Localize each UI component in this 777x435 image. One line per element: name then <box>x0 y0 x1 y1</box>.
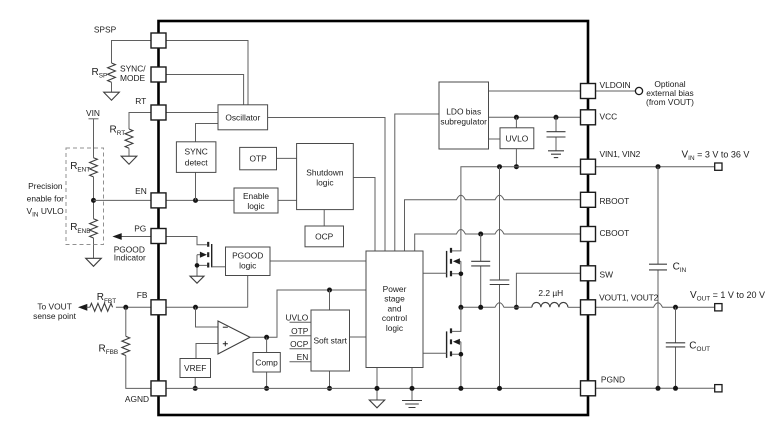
svg-text:OCP: OCP <box>290 339 309 349</box>
node CBOOT cap junction <box>478 232 483 237</box>
svg-text:logic: logic <box>247 201 264 211</box>
ground AGND (analog, triangle) <box>369 400 384 408</box>
node PGND/COUT junction <box>673 386 678 391</box>
pin RT <box>135 96 166 120</box>
ground (VCC cap, earth symbol) <box>548 151 564 158</box>
wire power stage to PGND ground <box>411 368 413 401</box>
svg-text:OTP: OTP <box>291 326 309 336</box>
node EN / sync detect junction <box>193 198 198 203</box>
svg-text:Indicator: Indicator <box>114 253 146 263</box>
svg-text:(from VOUT): (from VOUT) <box>646 97 694 107</box>
wire VREF to AGND rail <box>194 378 196 389</box>
wire error amp output to power stage <box>250 290 366 337</box>
svg-text:VLDOIN: VLDOIN <box>600 80 631 90</box>
terminal VOUT <box>715 304 722 311</box>
wire RT pin to oscillator <box>166 112 218 114</box>
block SYNC detect <box>176 142 216 173</box>
ground (PGOOD FET source) <box>190 276 204 283</box>
wire RFBB to AGND pin <box>126 356 151 389</box>
wire LDO to VLDOIN pin <box>489 90 581 92</box>
svg-text:OTP: OTP <box>249 154 267 164</box>
node comp junction <box>264 335 269 340</box>
svg-text:sense point: sense point <box>33 311 77 321</box>
wire soft start input EN <box>290 361 312 363</box>
wire LDO to VCC pin <box>489 116 581 118</box>
pin PG <box>134 224 166 244</box>
resistor RENT <box>90 158 98 177</box>
svg-text:AGND: AGND <box>125 394 149 404</box>
svg-text:VIN: VIN <box>86 108 100 118</box>
svg-text:FB: FB <box>137 290 148 300</box>
block power stage and control logic <box>366 251 423 368</box>
wire soft start to power stage <box>350 336 367 338</box>
wire PG pin to indicator arrow <box>114 236 151 238</box>
node VCC cap junction <box>554 115 559 120</box>
wire soft start input UVLO <box>290 321 312 323</box>
pin RBOOT <box>581 192 630 207</box>
block comp <box>253 353 280 373</box>
pin FB <box>137 290 166 315</box>
wire EN pin to enable logic <box>166 199 234 201</box>
wire shutdown logic to OCP <box>323 210 325 226</box>
wire VIN external <box>596 166 715 168</box>
op-amp error amplifier <box>218 321 250 354</box>
block oscillator <box>218 105 268 130</box>
wire VLDOIN external <box>596 90 636 92</box>
wire SYNC detect to oscillator <box>196 124 219 142</box>
svg-text:VOUT1, VOUT2: VOUT1, VOUT2 <box>599 292 659 302</box>
wire RSP to ground <box>111 82 113 92</box>
svg-text:SPSP: SPSP <box>94 24 117 34</box>
wire RENB to ground <box>93 238 95 258</box>
svg-text:EN: EN <box>297 352 309 362</box>
pin AGND <box>125 381 166 404</box>
block soft start <box>311 310 350 371</box>
svg-text:Comp: Comp <box>255 358 278 368</box>
wire LDO bias to power stage <box>395 114 439 251</box>
capacitor CIN <box>657 167 659 389</box>
ground (RRT) <box>121 156 137 164</box>
pin VCC <box>581 110 618 125</box>
node VOUT/COUT junction <box>673 305 678 310</box>
svg-text:enable for: enable for <box>27 194 64 204</box>
wire VREF to error amp noninverting input <box>196 344 218 359</box>
block enable logic <box>234 188 278 213</box>
svg-text:2.2 µH: 2.2 µH <box>538 288 563 298</box>
node FB divider junction <box>123 305 128 310</box>
wire soft start input OTP <box>290 335 312 337</box>
wire comp to AGND rail <box>266 372 268 388</box>
node power stage pgnd junction <box>410 386 415 391</box>
wire VIN pin to high-side FET drain <box>452 167 581 251</box>
node SW/jog junction <box>514 305 519 310</box>
block PGOOD logic <box>226 247 271 276</box>
svg-text:Oscillator: Oscillator <box>225 112 260 122</box>
wire FB pin line <box>166 306 248 308</box>
resistor RFBT <box>90 303 113 311</box>
svg-text:SYNC: SYNC <box>185 147 208 157</box>
svg-text:Shutdown: Shutdown <box>306 167 344 177</box>
node FB internal junction <box>193 305 198 310</box>
wire FB junction down to RFBB <box>125 307 127 336</box>
node VIN internal cap junction <box>497 164 502 169</box>
node VCC/UVLO junction <box>514 115 519 120</box>
ground PGND (earth symbol) <box>402 401 422 408</box>
wire PGOOD FET gate to PGOOD logic <box>212 266 226 268</box>
pin SW <box>581 266 614 281</box>
svg-text:RT: RT <box>135 96 146 106</box>
transistor Q2 high-side FET <box>450 248 452 276</box>
wire UVLO to VCC line <box>515 117 517 128</box>
svg-text:Power: Power <box>383 284 407 294</box>
wire divider to EN pin <box>94 199 152 201</box>
wire divider middle <box>93 177 95 219</box>
transistor Q3 low-side FET <box>450 328 452 356</box>
svg-text:UVLO: UVLO <box>505 133 528 143</box>
node internal cap ground junction <box>497 386 502 391</box>
wire OTP to shutdown logic <box>277 157 297 159</box>
node EN divider junction <box>91 198 96 203</box>
pin SYNC/MODE <box>120 64 166 83</box>
svg-text:stage: stage <box>384 294 405 304</box>
node SW/CBOOT cap junction <box>478 305 483 310</box>
node comp ground junction <box>264 386 269 391</box>
svg-text:VREF: VREF <box>184 363 206 373</box>
capacitor COUT <box>675 307 677 388</box>
pin VOUT1, VOUT2 <box>581 292 659 315</box>
wire SW pin jog <box>516 273 580 307</box>
ground (RENB) <box>86 258 102 266</box>
wire LDO to UVLO <box>489 138 501 140</box>
wire shutdown logic to power stage <box>353 178 375 252</box>
wire CBOOT pin to power stage <box>415 230 581 252</box>
svg-text:PG: PG <box>134 224 146 234</box>
ground (RSP) <box>104 92 120 100</box>
pin VLDOIN <box>581 80 631 98</box>
inductor L1 2.2uH <box>532 302 568 307</box>
svg-text:Soft start: Soft start <box>313 335 347 345</box>
pin VIN1, VIN2 <box>581 149 641 174</box>
wire comp to output line <box>266 337 268 352</box>
svg-text:logic: logic <box>316 177 333 187</box>
svg-text:OCP: OCP <box>315 232 334 242</box>
wire RRT to ground <box>128 148 130 156</box>
terminal optional external bias <box>635 87 642 94</box>
wire VIN to RENT <box>93 119 95 158</box>
wire FB to error amp inverting input <box>196 307 219 327</box>
block shutdown logic <box>297 144 354 210</box>
svg-text:UVLO: UVLO <box>285 313 308 323</box>
svg-text:VCC: VCC <box>600 112 618 122</box>
wire RFBT to FB pin <box>116 306 151 308</box>
wire VOUT external <box>596 303 715 308</box>
module outline U1 (power module boundary) <box>159 21 589 415</box>
node UVLO/VIN junction <box>514 164 519 169</box>
block OTP <box>240 147 277 169</box>
wire RBOOT pin to power stage <box>405 195 581 251</box>
svg-text:VIN1, VIN2: VIN1, VIN2 <box>600 149 641 159</box>
wire SYNC/MODE pin to oscillator <box>166 75 244 105</box>
block UVLO <box>500 128 534 149</box>
arrow to VOUT sense point <box>78 304 87 311</box>
wire AGND/PGND rail <box>166 387 581 389</box>
terminal PGND <box>715 385 722 392</box>
node PGND/CIN junction <box>656 386 661 391</box>
pin CBOOT <box>581 227 630 242</box>
terminal VIN <box>715 163 722 170</box>
wire enable logic to shutdown logic <box>278 199 297 201</box>
svg-text:logic: logic <box>386 323 403 333</box>
wire soft start input OCP <box>290 348 312 350</box>
node power stage agnd junction <box>375 386 380 391</box>
capacitor CBOOT bootstrap <box>480 234 482 307</box>
wire PGOOD logic to FB line <box>247 276 249 308</box>
block VREF <box>180 359 211 378</box>
capacitor VCC bypass <box>555 117 557 151</box>
wire SYNC detect to EN line <box>195 172 197 200</box>
wire PGOOD logic to power stage <box>270 260 366 262</box>
resistor RFBB <box>122 336 130 355</box>
wire RT pin to RRT <box>129 113 151 130</box>
resistor RENB <box>90 219 98 238</box>
svg-text:LDO bias: LDO bias <box>446 107 481 117</box>
svg-text:PGND: PGND <box>601 375 625 385</box>
svg-text:control: control <box>382 313 407 323</box>
svg-text:subregulator: subregulator <box>440 117 487 127</box>
svg-text:logic: logic <box>239 261 256 271</box>
pin PGND <box>581 375 626 396</box>
svg-text:EN: EN <box>135 186 147 196</box>
svg-text:SW: SW <box>600 270 614 280</box>
svg-text:detect: detect <box>185 158 208 168</box>
node VREF ground junction <box>193 386 198 391</box>
node soft start ground junction <box>327 386 332 391</box>
block OCP <box>305 226 344 247</box>
arrow PGOOD indicator <box>112 233 121 240</box>
svg-text:PGOOD: PGOOD <box>232 251 263 261</box>
dashed precision-enable box <box>66 148 104 245</box>
wire SW node line <box>461 303 532 308</box>
wire soft start top <box>329 290 331 310</box>
resistor RRT <box>125 129 133 148</box>
node VIN/CIN junction <box>656 164 661 169</box>
wire UVLO to VIN line <box>515 149 517 167</box>
wire PG pin to PGOOD FET drain <box>166 237 207 245</box>
wire SPSP pin to RSP <box>112 41 152 64</box>
svg-text:CBOOT: CBOOT <box>600 228 630 238</box>
wire soft start to AGND rail <box>329 371 331 388</box>
block LDO bias subregulator <box>439 82 489 149</box>
transistor Q1 PGOOD open-drain FET <box>207 242 209 268</box>
wire SPSP pin to oscillator <box>166 41 248 105</box>
node low-side source ground junction <box>458 386 463 391</box>
pin SPSP <box>94 24 166 48</box>
node SW/FET junction <box>458 305 463 310</box>
svg-text:MODE: MODE <box>120 73 146 83</box>
resistor RSP <box>108 63 116 82</box>
svg-text:Precision: Precision <box>28 181 63 191</box>
pin EN <box>135 186 166 208</box>
node soft start junction <box>327 288 332 293</box>
svg-text:and: and <box>388 303 402 313</box>
svg-text:RBOOT: RBOOT <box>600 196 630 206</box>
wire power stage to AGND ground <box>376 368 378 401</box>
wire PGND external <box>596 387 715 389</box>
svg-text:Enable: Enable <box>243 191 269 201</box>
capacitor internal VIN bypass <box>499 167 501 389</box>
wire oscillator to power stage <box>268 118 385 252</box>
